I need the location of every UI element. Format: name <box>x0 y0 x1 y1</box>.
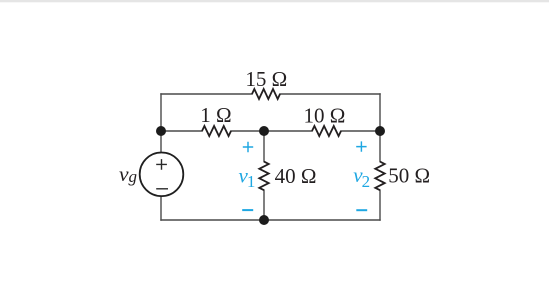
svg-text:40 Ω: 40 Ω <box>275 164 317 188</box>
svg-text:10 Ω: 10 Ω <box>303 103 345 127</box>
svg-text:15 Ω: 15 Ω <box>245 67 287 91</box>
svg-text:1 Ω: 1 Ω <box>200 103 231 127</box>
svg-text:50 Ω: 50 Ω <box>388 164 430 188</box>
